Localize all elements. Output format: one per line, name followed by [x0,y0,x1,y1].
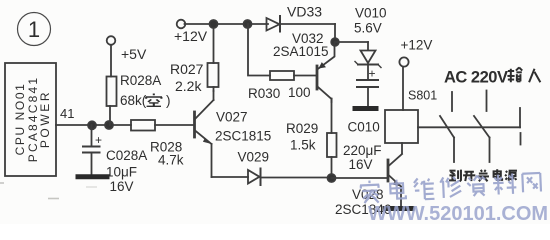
svg-text:10μF: 10μF [106,165,137,180]
capacitor C010 [357,80,378,106]
glyphs 到开关电源 (to switching power supply) [449,169,517,181]
glyphs 输入 (AC input) [507,67,540,82]
capacitor C028A [83,125,100,174]
resistor R028 [131,120,155,131]
top wire [185,23,269,25]
svg-text:C010: C010 [348,120,380,135]
svg-text:2SC1815: 2SC1815 [215,129,271,144]
svg-text:R027: R027 [170,61,204,77]
node junction R028A tap [105,121,113,129]
wire down to V032 emitter node [334,24,336,42]
svg-text:AC 220V: AC 220V [444,69,508,87]
resistor R028A [110,45,112,77]
R028A value labels 68k(kong) [120,73,171,108]
node R027 top [210,20,218,28]
C010 value labels 220uF 16V [343,120,382,173]
resistor R030 [248,24,270,76]
V032 type labels 2SA1015 [273,31,329,59]
+12V terminal (left) [177,20,186,29]
svg-text:4.7k: 4.7k [158,153,184,168]
diode V029 [248,169,332,186]
CPU IC U-N001 box [5,63,56,176]
svg-text:+: + [95,133,102,147]
svg-text:V010: V010 [355,6,387,21]
wire pin41 to R028 [56,124,131,126]
R027 value labels 2.2k [170,61,204,94]
svg-text:+12V: +12V [401,38,433,53]
node V032 emitter [331,38,339,46]
svg-text:16V: 16V [349,157,373,172]
svg-text:68k(: 68k( [120,93,147,108]
svg-text:CPU NO01: CPU NO01 [13,83,27,156]
svg-text:1.5k: 1.5k [290,138,316,153]
svg-text:220μF: 220μF [343,143,382,158]
svg-text:16V: 16V [110,179,134,194]
C028A value labels [106,148,147,194]
ground (C028A) [78,174,107,179]
svg-text:R029: R029 [286,121,318,136]
svg-text:5.6V: 5.6V [354,21,382,36]
ground (C010) [355,106,376,111]
svg-text:POWER: POWER [38,90,52,148]
watermark line 1: 家电维修资料网 [360,172,541,203]
R030 value labels 100 [248,85,311,101]
svg-text:V029: V029 [238,150,270,165]
R028 value labels 4.7k [150,140,184,168]
+12V terminal (right) [399,57,408,66]
V027 type labels 2SC1815 [215,110,271,144]
wire V032 emitter node to zener [335,41,368,43]
svg-text:S801: S801 [408,89,437,103]
R029 value labels 1.5k [286,121,318,153]
zener diode V010 [355,42,381,79]
svg-text:+12V: +12V [174,28,208,44]
resistor R029 [331,99,333,133]
svg-text:C028A: C028A [106,148,147,163]
switch pole 1 [440,92,454,162]
svg-text:2SA1015: 2SA1015 [273,44,329,59]
wire junction to V028 base [332,177,389,179]
transistor V027 2SC1815 [195,91,214,177]
V010 value labels 5.6V and C010 polarity + [354,6,387,81]
svg-text:R028A: R028A [120,73,161,88]
node junction C028A tap [88,121,96,129]
svg-text:V027: V027 [216,110,248,125]
transistor V028 2SC1846 [388,143,402,206]
page number circle 1 [18,13,51,46]
svg-text:+5V: +5V [121,46,147,62]
AC terminal stubs [519,108,521,127]
svg-text:41: 41 [60,106,74,121]
svg-text:100: 100 [288,85,311,100]
V028 type labels 2SC1846 [335,187,391,217]
resistor R027 [208,63,219,87]
diode VD33 [267,16,336,32]
svg-text:2.2k: 2.2k [175,78,202,94]
svg-text:WWW.520101.COM: WWW.520101.COM [368,203,548,224]
CPU label text (rotated) [13,76,52,163]
relay contact linkage line [418,126,520,128]
+5V terminal [107,36,116,45]
transistor V032 2SA1015 [317,42,335,102]
node bottom junction [328,174,336,182]
bottom wire V027 emitter to V029 [212,176,249,178]
svg-text:R030: R030 [248,86,280,101]
svg-text:): ) [166,93,171,108]
relay S801 [402,67,404,110]
glyph 空 in 68k() [146,94,162,107]
ground (V028 emitter) [385,206,412,211]
svg-text:1: 1 [28,17,40,42]
switch pole 2 [474,91,490,163]
svg-text:+: + [369,67,376,81]
node VD33 anode / R030 branch [244,20,252,28]
svg-text:VD33: VD33 [287,4,322,20]
